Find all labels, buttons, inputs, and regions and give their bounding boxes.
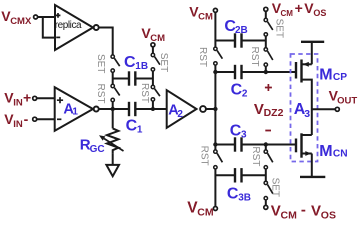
svg-text:OUT: OUT xyxy=(337,96,357,107)
label VDZ2 plus xyxy=(265,84,272,91)
ground xyxy=(106,165,119,176)
transistor MCN xyxy=(295,139,297,153)
svg-text:-: - xyxy=(24,111,29,127)
svg-text:C: C xyxy=(126,118,138,135)
svg-text:CN: CN xyxy=(333,149,348,160)
svg-text:C: C xyxy=(227,186,239,203)
svg-text:SET: SET xyxy=(95,54,106,73)
svg-text:V: V xyxy=(254,101,264,118)
svg-text:+: + xyxy=(295,0,303,16)
wire inner column upper xyxy=(214,13,216,47)
svg-text:1: 1 xyxy=(72,107,78,118)
resistor RGC arrow xyxy=(104,139,124,152)
switch RST S6 (inner bottom) xyxy=(214,150,217,153)
svg-text:+: + xyxy=(23,89,31,105)
wire VCM to S3 xyxy=(152,47,154,53)
svg-text:OS: OS xyxy=(321,209,336,220)
A2 output circle xyxy=(200,106,206,112)
wire VIN+ to A1 xyxy=(37,97,55,99)
svg-text:M: M xyxy=(319,67,332,84)
svg-text:2: 2 xyxy=(242,89,248,100)
wire S10 to terminal xyxy=(265,200,267,205)
svg-text:V: V xyxy=(271,203,281,220)
A1 output circle xyxy=(94,107,99,112)
svg-text:C: C xyxy=(124,54,136,71)
wire S7 to C2B tee xyxy=(265,36,267,47)
capacitor C2 on gate line xyxy=(215,71,235,73)
wire inner column lower xyxy=(214,169,216,206)
svg-text:IN: IN xyxy=(13,119,23,130)
switch SET S1 (left col) xyxy=(111,55,114,58)
svg-text:2B: 2B xyxy=(235,25,248,36)
dashed box A3 xyxy=(291,54,318,162)
supply rail top xyxy=(301,41,324,43)
svg-text:3: 3 xyxy=(304,108,310,120)
svg-text:-: - xyxy=(301,201,306,218)
capacitor C1B xyxy=(113,78,129,80)
svg-text:RST: RST xyxy=(95,84,106,104)
wire S2 to main line xyxy=(112,102,114,109)
svg-text:V: V xyxy=(311,202,321,219)
svg-text:RST: RST xyxy=(197,47,208,67)
wire VOUT xyxy=(312,108,335,110)
svg-text:SET: SET xyxy=(270,178,281,197)
svg-text:1: 1 xyxy=(137,125,143,136)
replica output circle xyxy=(94,25,99,30)
junction dot (inner col / main) xyxy=(213,107,217,111)
op-amp A1 xyxy=(55,87,93,131)
svg-text:M: M xyxy=(319,143,332,160)
switch RST S2 (left col) xyxy=(111,84,114,87)
switch RST S5 (inner top) xyxy=(214,47,217,50)
wire outer col bottom upper xyxy=(265,145,267,150)
svg-text:DZ2: DZ2 xyxy=(264,107,284,119)
junction dot (outer col / C2 line) xyxy=(264,70,268,74)
terminal VCM+VOS xyxy=(264,7,268,11)
terminal VOUT xyxy=(335,107,339,111)
junction dot (col2/main) xyxy=(151,107,155,111)
svg-text:CP: CP xyxy=(333,72,347,83)
wire VCMX to replica + input xyxy=(38,16,55,18)
capacitor C3 on gate line xyxy=(215,144,235,146)
svg-text:RST: RST xyxy=(249,47,260,67)
wire feedback drop xyxy=(43,16,55,38)
resistor RGC zigzag xyxy=(107,128,119,153)
svg-text:GC: GC xyxy=(90,144,105,155)
wire A2 out to inner column xyxy=(206,108,216,110)
svg-text:1B: 1B xyxy=(135,61,148,72)
junction dot (inner col / C2 line) xyxy=(213,70,217,74)
svg-text:CM: CM xyxy=(197,206,214,218)
svg-text:replica: replica xyxy=(55,20,82,31)
svg-text:IN: IN xyxy=(13,97,23,108)
capacitor C2B xyxy=(215,40,235,42)
svg-text:C: C xyxy=(230,123,242,140)
terminal VCM (left) xyxy=(151,43,155,47)
terminal VCM-VOS xyxy=(264,205,268,209)
switch SET S7 (outer top) xyxy=(264,18,267,21)
op-amp A2 xyxy=(167,90,197,128)
wire S8 to gate line xyxy=(265,67,267,72)
svg-text:SET: SET xyxy=(274,19,285,38)
switch RST S8 (outer top) xyxy=(264,48,267,51)
wire S9 to C3B tee xyxy=(265,169,267,181)
terminal VCM (top inner) xyxy=(213,8,217,12)
terminal VCMX xyxy=(34,15,38,19)
resistor RGC drop wire xyxy=(112,111,114,128)
svg-text:RST: RST xyxy=(250,146,261,166)
svg-text:OS: OS xyxy=(313,8,326,18)
switch RST S4 xyxy=(151,85,154,88)
main signal line xyxy=(99,108,129,110)
svg-text:CMX: CMX xyxy=(10,16,32,27)
terminal VCM (bottom inner) xyxy=(213,207,217,211)
svg-text:CM: CM xyxy=(281,9,294,18)
svg-text:RST: RST xyxy=(199,146,210,166)
svg-text:CM: CM xyxy=(198,12,213,23)
label VDZ2 minus xyxy=(265,130,271,132)
capacitor C1 xyxy=(128,102,130,116)
svg-text:SET: SET xyxy=(158,53,169,72)
wire outer col top xyxy=(265,11,267,18)
svg-text:2: 2 xyxy=(177,109,183,120)
svg-text:C: C xyxy=(231,82,243,99)
terminal VIN- xyxy=(33,117,37,121)
capacitor C3B xyxy=(215,174,235,176)
svg-text:3: 3 xyxy=(241,129,247,140)
junction dot (outer col / C3 line) xyxy=(264,142,268,146)
transistor MCP xyxy=(295,62,297,79)
op-amp replica xyxy=(55,5,93,50)
junction dot (inner col / C3 line) xyxy=(213,142,217,146)
switch RST S9 (outer bottom) xyxy=(264,150,267,153)
svg-text:CM: CM xyxy=(281,210,298,220)
wire S4 to main line xyxy=(152,101,154,109)
terminal VIN+ xyxy=(33,96,37,100)
switch SET S3 xyxy=(151,53,154,56)
supply rail bottom xyxy=(300,176,325,178)
wire S3 to C1B tee xyxy=(152,71,154,85)
wire VIN- to A1 xyxy=(37,118,55,120)
junction dot (col1/main) xyxy=(111,107,115,111)
svg-text:3B: 3B xyxy=(238,192,251,203)
wire inner column middle xyxy=(214,65,216,149)
switch SET S10 (outer bottom) xyxy=(264,181,267,184)
wire S1 to C1B tee xyxy=(112,72,114,84)
svg-text:RST: RST xyxy=(139,83,150,103)
MCP drain xyxy=(302,80,312,135)
wire to ground xyxy=(112,154,114,165)
wire replica output to column xyxy=(99,28,113,55)
